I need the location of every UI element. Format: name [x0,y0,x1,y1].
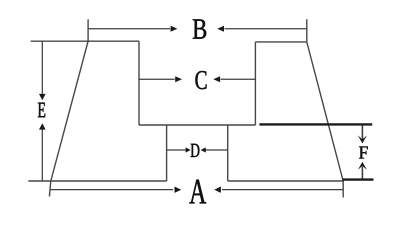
arrowhead C right (points left) [213,76,220,82]
B extension tick left [87,19,89,41]
outline right slant edge [307,42,343,180]
arrowhead B right (points left) [217,26,224,32]
dimension C line left [139,78,175,80]
dimension E line upper [41,41,43,94]
step line across slot [139,124,255,126]
outline left slant edge [51,41,88,181]
dimension D line right [205,149,228,151]
dimension D line left [167,149,187,151]
arrowhead F upper (points down, chevron) [358,135,367,143]
arrowhead E upper (points down) [39,94,46,100]
outline bottom edge left [28,180,166,182]
arrowhead D left (points right) [186,147,191,152]
thick datum line at step level [259,123,372,125]
slot left wall (C channel) [138,41,140,125]
dimension F line lower [361,166,363,178]
slot right wall (C channel) [254,42,256,125]
dimension F line upper [361,126,363,140]
A extension tick right [342,180,344,198]
label A [189,180,206,204]
dimension B line left [89,28,171,30]
B extension tick right [306,19,308,42]
arrowhead E lower (points up) [39,123,46,129]
label C [195,71,206,89]
arrowhead D right (points left) [201,147,206,152]
dimension A line left [51,189,173,191]
label B [193,19,206,38]
slot left wall (D channel) [166,125,168,181]
arrowhead C left (points right) [175,76,182,82]
label E [38,103,45,118]
arrowhead A left (points right) [175,187,182,193]
dimension B line right [225,28,307,30]
arrowhead F lower (points up, chevron) [358,162,367,170]
outline top edge left (with E extension) [31,40,139,42]
dimension E line lower [41,129,43,181]
label F [359,147,368,159]
outline top edge right [255,41,306,43]
arrowhead A right (points left) [214,187,221,193]
label D [191,144,200,157]
slot right wall (D channel) [227,125,229,181]
A extension tick left [49,181,50,197]
outline bottom edge right [228,180,343,182]
thick datum line at bottom level [342,178,373,180]
dimension A line right [222,189,343,191]
dimension C line right [221,78,256,80]
arrowhead B left (points right) [171,26,178,32]
